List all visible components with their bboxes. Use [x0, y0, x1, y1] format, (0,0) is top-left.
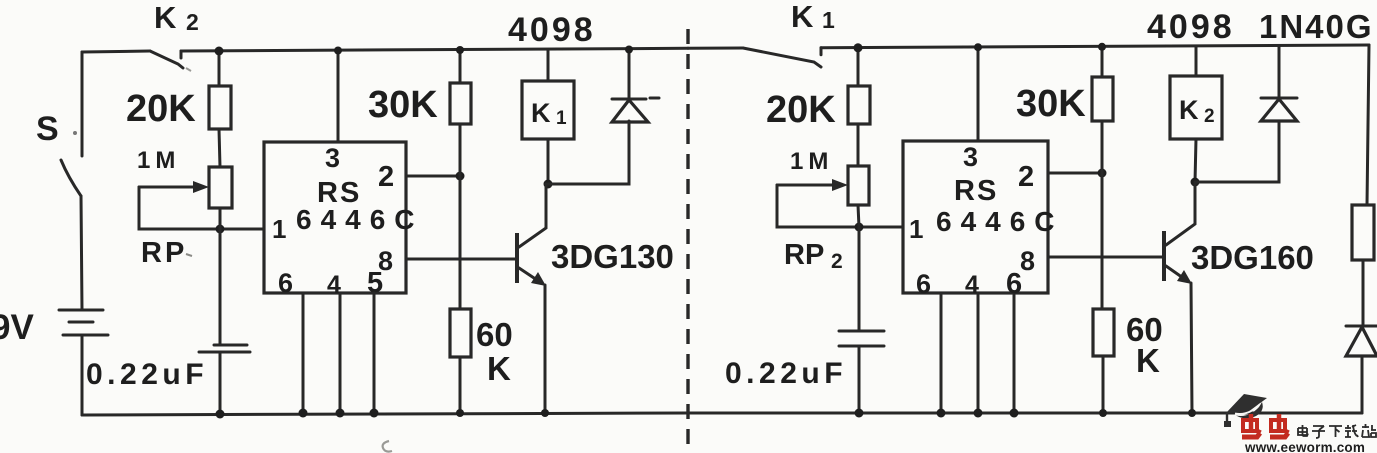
capacitor C2 0.22uF — [839, 331, 884, 346]
svg-text:6: 6 — [916, 269, 931, 299]
svg-text:20K: 20K — [126, 88, 196, 130]
svg-text:4098: 4098 — [508, 11, 596, 49]
node pin4 bottom right — [974, 409, 983, 418]
top supply bus left section — [82, 48, 688, 52]
node VD1 bus — [625, 46, 633, 54]
IC U1 RS6446C box — [264, 142, 406, 293]
wire 20K to RP — [219, 129, 220, 167]
wire rail to battery — [81, 196, 82, 310]
wire resistor to VD3 — [1362, 260, 1365, 326]
node RP bottom — [216, 225, 225, 234]
diode VD2 stem — [1278, 46, 1281, 98]
wire K1 to node — [547, 139, 550, 184]
RP2 feedback loop wire — [777, 185, 903, 227]
relay K1 text — [531, 98, 567, 129]
node 30K bus right — [1098, 43, 1106, 51]
svg-text:S: S — [36, 110, 59, 148]
wire to RP2 — [857, 124, 860, 166]
scan speck after blade K2 — [186, 68, 191, 71]
node 60K bottom right — [1099, 409, 1107, 417]
wire pot to capacitor — [219, 208, 222, 345]
wire pin2 right — [1048, 172, 1102, 175]
diode VD3 — [1346, 326, 1377, 356]
wire pin6 down — [302, 293, 305, 413]
label RP2 — [784, 239, 843, 273]
dashed separator — [686, 29, 689, 453]
svg-text:2: 2 — [1204, 106, 1215, 127]
svg-text:2: 2 — [186, 9, 199, 35]
watermark site name dian zi xia zai zhan — [1298, 424, 1376, 438]
svg-text:9V: 9V — [0, 308, 34, 347]
svg-text:3DG130: 3DG130 — [551, 238, 674, 275]
svg-text:6446C: 6446C — [936, 206, 1064, 237]
node RP2 bottom — [855, 223, 864, 232]
svg-text:K: K — [487, 350, 511, 387]
diode VD1 stem — [628, 50, 631, 99]
wire pin5 down — [373, 293, 376, 413]
wire 30K to 60K right — [1101, 121, 1104, 309]
svg-text:K: K — [1136, 342, 1160, 379]
relay K2 coil box — [1170, 76, 1222, 139]
wire 60K to bottom — [459, 357, 462, 413]
switch S — [61, 160, 81, 196]
node pin3 bus — [334, 47, 342, 55]
capacitor C1 0.22uF — [199, 345, 250, 352]
svg-text:K: K — [154, 0, 177, 35]
wire 30K right stem — [1101, 47, 1104, 77]
svg-text:2: 2 — [1018, 161, 1034, 193]
transistor Q2 3DG160 — [1162, 182, 1195, 413]
scan speck near S — [73, 131, 77, 135]
node collector junction — [544, 180, 553, 189]
wire VD2 to junction right — [1195, 121, 1279, 182]
transistor Q1 3DG130 — [515, 184, 546, 413]
svg-text:RS: RS — [954, 175, 998, 207]
wire pin2 — [406, 175, 460, 178]
wire pin3 to bus right — [977, 47, 980, 141]
relay K1 coil box — [522, 81, 574, 139]
scan smudge squiggle — [383, 441, 392, 452]
node pin6 bottom right — [937, 409, 946, 418]
right edge rail top — [1367, 45, 1369, 205]
wire pin3 to bus — [337, 51, 340, 142]
node cap bottom right — [855, 409, 864, 418]
svg-text:0.22uF: 0.22uF — [725, 357, 847, 390]
svg-text:30K: 30K — [1016, 83, 1086, 125]
wire pin8 to Q2 base — [1048, 256, 1162, 259]
svg-text:4098: 4098 — [1147, 8, 1235, 46]
node pin4 bottom — [336, 409, 345, 418]
diode VD1 — [612, 98, 659, 122]
svg-text:1: 1 — [909, 214, 923, 244]
potentiometer RP 1M body — [209, 167, 232, 208]
resistor 60K — [450, 309, 471, 357]
left rail wire — [81, 52, 84, 156]
node pin6 bottom — [299, 409, 308, 418]
resistor 30K right — [1092, 77, 1113, 121]
svg-text:1: 1 — [822, 7, 835, 33]
svg-text:6446C: 6446C — [296, 204, 424, 235]
label 60K — [476, 316, 513, 387]
svg-text:60: 60 — [476, 316, 513, 353]
label 60K right — [1126, 311, 1163, 379]
svg-text:1M: 1M — [137, 147, 180, 174]
resistor 60K right — [1093, 309, 1114, 356]
diode VD2 — [1261, 98, 1297, 121]
resistor 20K — [209, 86, 231, 129]
wire 60K to bottom right — [1102, 356, 1105, 413]
node pin2-30K — [456, 172, 465, 181]
resistor 20K right — [848, 86, 870, 124]
svg-text:30K: 30K — [368, 84, 438, 126]
scan speck after RP — [186, 254, 192, 256]
svg-text:K: K — [791, 0, 814, 34]
wire VD3 to bottom — [1361, 356, 1364, 413]
svg-text:RP: RP — [784, 239, 824, 271]
node pin5 bottom right — [1010, 409, 1019, 418]
svg-text:2: 2 — [831, 250, 843, 273]
top bus right section — [688, 45, 1369, 48]
wire VD1 to junction — [548, 121, 629, 184]
node pin5 bottom — [370, 409, 379, 418]
RP feedback loop wire — [139, 187, 264, 229]
node pin3 bus right — [974, 43, 982, 51]
svg-text:1: 1 — [556, 108, 567, 129]
label K2 — [154, 0, 199, 35]
battery 9V — [59, 310, 108, 335]
node 20K right — [854, 43, 863, 52]
wire cap to bottom right — [858, 346, 861, 413]
svg-text:1M: 1M — [790, 148, 833, 175]
wire 20K right stem — [857, 48, 860, 86]
RP wiper arrow — [139, 181, 209, 193]
watermark graduation cap — [1224, 394, 1267, 427]
svg-text:3: 3 — [325, 143, 340, 173]
svg-text:1N40G: 1N40G — [1259, 8, 1374, 45]
wire K2 to node — [1195, 139, 1196, 182]
node 60K bottom — [456, 409, 464, 417]
wire pin4 down — [339, 293, 342, 413]
wire pin4 down right — [977, 295, 980, 413]
node pin2-30K right — [1098, 169, 1107, 178]
svg-text:8: 8 — [1020, 246, 1035, 276]
node Q1 emitter bottom — [541, 409, 549, 417]
wire 30K to 60K — [459, 124, 462, 309]
watermark chongchong red characters — [1242, 414, 1289, 437]
relay K1 coil stem — [547, 50, 550, 81]
node 30K bus — [456, 46, 464, 54]
wire battery to bottom bus — [81, 335, 84, 415]
svg-text:3DG160: 3DG160 — [1191, 239, 1314, 276]
svg-text:K: K — [531, 98, 551, 128]
label K1 — [791, 0, 835, 34]
RP2 wiper arrow — [777, 179, 848, 191]
node collector junction right — [1191, 178, 1200, 187]
svg-text:6: 6 — [278, 268, 293, 298]
wire pot to capacitor right — [858, 205, 859, 331]
relay K2 coil stem — [1195, 47, 1198, 77]
wire pin5 down right — [1013, 295, 1016, 413]
wire pin8 to Q1 base — [406, 258, 515, 261]
bottom ground bus — [82, 413, 1362, 415]
node Q2 emitter bottom — [1188, 409, 1196, 417]
svg-text:3: 3 — [963, 142, 978, 172]
switch K2 contact blade — [150, 51, 183, 68]
svg-text:www.eeworm.com: www.eeworm.com — [1244, 440, 1365, 453]
node cap bottom — [216, 410, 225, 419]
potentiometer RP2 1M body — [848, 166, 869, 205]
wire pin6 down right — [940, 295, 943, 413]
node top 20K — [215, 47, 224, 56]
wire 30K stem — [459, 51, 462, 84]
wire 20K stem — [218, 51, 221, 86]
svg-text:RP: RP — [141, 237, 187, 269]
wire cap to bottom — [219, 352, 222, 414]
resistor right edge — [1352, 205, 1374, 260]
svg-text:0.22uF: 0.22uF — [86, 358, 208, 391]
svg-text:20K: 20K — [766, 89, 836, 131]
svg-text:K: K — [1179, 95, 1199, 125]
relay K2 text — [1179, 95, 1215, 127]
svg-text:1: 1 — [272, 214, 286, 244]
switch K1 contact blade — [743, 48, 821, 67]
IC U2 RS6446C box — [903, 141, 1048, 293]
svg-text:2: 2 — [378, 161, 394, 193]
resistor 30K — [450, 83, 471, 124]
